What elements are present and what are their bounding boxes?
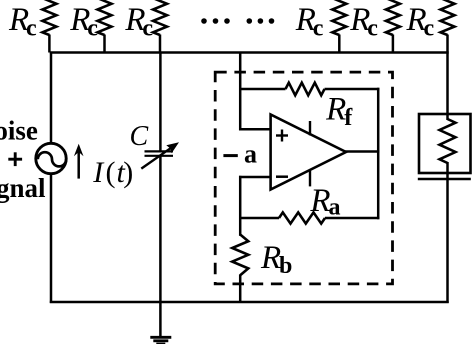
wire right branch lower [446,162,449,303]
resistor Rc2 [69,0,111,53]
svg-text:R: R [325,92,346,128]
resistor Rf [239,83,379,131]
dashed box (negative conductance block) [215,72,392,284]
label I(t) [92,156,133,189]
resistor Rb [232,235,292,303]
wire bottom bus [50,301,449,304]
load box [418,114,471,179]
wire left branch upper [50,52,53,143]
svg-text:c: c [142,16,153,42]
svg-text:R: R [309,183,330,219]
wire op-amp - input [239,176,271,236]
op-amp U1 [271,115,346,190]
svg-text:c: c [367,16,378,42]
svg-text:c: c [424,16,435,42]
svg-text:): ) [123,156,133,189]
wire capacitor branch lower [159,156,162,302]
wire left branch lower [50,175,53,304]
svg-text:a: a [244,140,257,169]
svg-text:c: c [87,16,98,42]
svg-text:c: c [313,16,324,42]
node -a [223,140,257,169]
arrow current direction I(t) [74,144,84,179]
svg-text:c: c [26,16,37,42]
label noise+signal [0,116,46,204]
resistor in load box [440,119,456,163]
resistor Ra [239,183,379,224]
wire top bus [50,51,449,54]
wire capacitor branch upper [159,53,162,151]
resistor Rc4 [295,0,347,53]
svg-text:a: a [329,195,341,221]
svg-text:b: b [279,253,292,279]
resistor Rc3 [124,0,167,53]
wire right branch upper [446,53,449,121]
svg-text:(: ( [106,156,116,189]
svg-text:R: R [260,240,281,276]
AC source (noise+signal) [36,143,66,173]
resistor Rc5 [349,0,400,53]
wire op-amp output [345,150,380,153]
wire feedback right side [377,88,380,219]
ground [150,302,171,344]
svg-text:C: C [130,121,149,152]
svg-text:noise: noise [0,116,38,146]
svg-text:signal: signal [0,173,46,203]
svg-text:f: f [344,105,353,131]
capacitor C (variable) [141,142,179,168]
wire from top bus to op-amp + input [239,53,271,131]
resistor Rc1 [8,0,56,53]
resistor Rc6 [406,0,455,53]
continuation dots [201,18,274,24]
